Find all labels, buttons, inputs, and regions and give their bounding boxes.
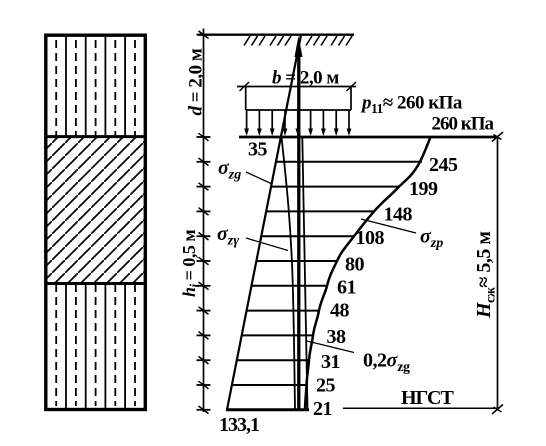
load strip right edge (350, 87, 352, 111)
H dimension line (497, 137, 499, 409)
soil column layer 1 vertical solid lines (66, 36, 125, 136)
soil column layer 3 vertical dashed lines (56, 284, 135, 406)
svg-text:199: 199 (409, 178, 438, 200)
foundation base line (239, 136, 498, 139)
soil column layer 1 vertical dashed lines (56, 40, 135, 136)
svg-text:260 кПа: 260 кПа (432, 114, 495, 135)
vertical axis arrowhead (295, 36, 303, 57)
svg-text:133,1: 133,1 (219, 414, 259, 436)
ground hatch strokes (244, 36, 352, 46)
svg-text:48: 48 (330, 300, 350, 322)
left dimension line (203, 29, 205, 413)
sigma_zp curve (305, 137, 431, 410)
svg-text:245: 245 (429, 154, 458, 176)
svg-text:31: 31 (321, 351, 340, 373)
left dimension ticks (197, 31, 211, 414)
soil column layer boundary 1 (45, 135, 147, 138)
svg-text:35: 35 (248, 139, 268, 161)
soil column layer 3 vertical solid lines (66, 284, 125, 409)
svg-text:80: 80 (345, 254, 365, 276)
svg-text:НГСТ: НГСТ (401, 387, 454, 409)
horizontal level lines (232, 162, 422, 385)
leader sigma_zp (361, 219, 416, 233)
svg-text:61: 61 (337, 277, 356, 299)
H dimension top tick (492, 132, 503, 142)
svg-text:38: 38 (327, 326, 347, 348)
ground surface line (198, 34, 354, 36)
sigma_zg line (227, 35, 301, 410)
leader 0.2 sigma_zg (307, 341, 354, 353)
0.2 sigma_zg line (302, 137, 307, 410)
load top line (246, 109, 351, 111)
soil column outer border (46, 35, 146, 409)
svg-text:Нсж≈ 5,5 м: Нсж≈ 5,5 м (473, 231, 499, 319)
load strip left edge (245, 87, 247, 111)
bottom compressed-zone line (226, 408, 309, 411)
svg-text:148: 148 (384, 204, 413, 226)
load arrows (244, 110, 351, 136)
svg-text:25: 25 (316, 375, 336, 397)
svg-text:b = 2,0 м: b = 2,0 м (272, 68, 339, 89)
svg-text:108: 108 (356, 227, 385, 249)
b dimension left tick (240, 82, 250, 91)
b dimension right tick (347, 82, 357, 91)
soil column layer boundary 2 (45, 282, 147, 285)
H dimension bottom tick (492, 405, 503, 415)
soil column layer 2 diagonal hatch (46, 138, 145, 283)
vertical axis shaft (297, 50, 300, 410)
b dimension line (237, 86, 356, 88)
sigma_zgamma curve (282, 137, 296, 410)
NGST level line (343, 407, 498, 409)
leader sigma_zg (246, 172, 271, 184)
svg-text:d = 2,0 м: d = 2,0 м (186, 48, 207, 115)
svg-text:21: 21 (313, 398, 332, 420)
leader sigma_zgamma (246, 238, 288, 251)
